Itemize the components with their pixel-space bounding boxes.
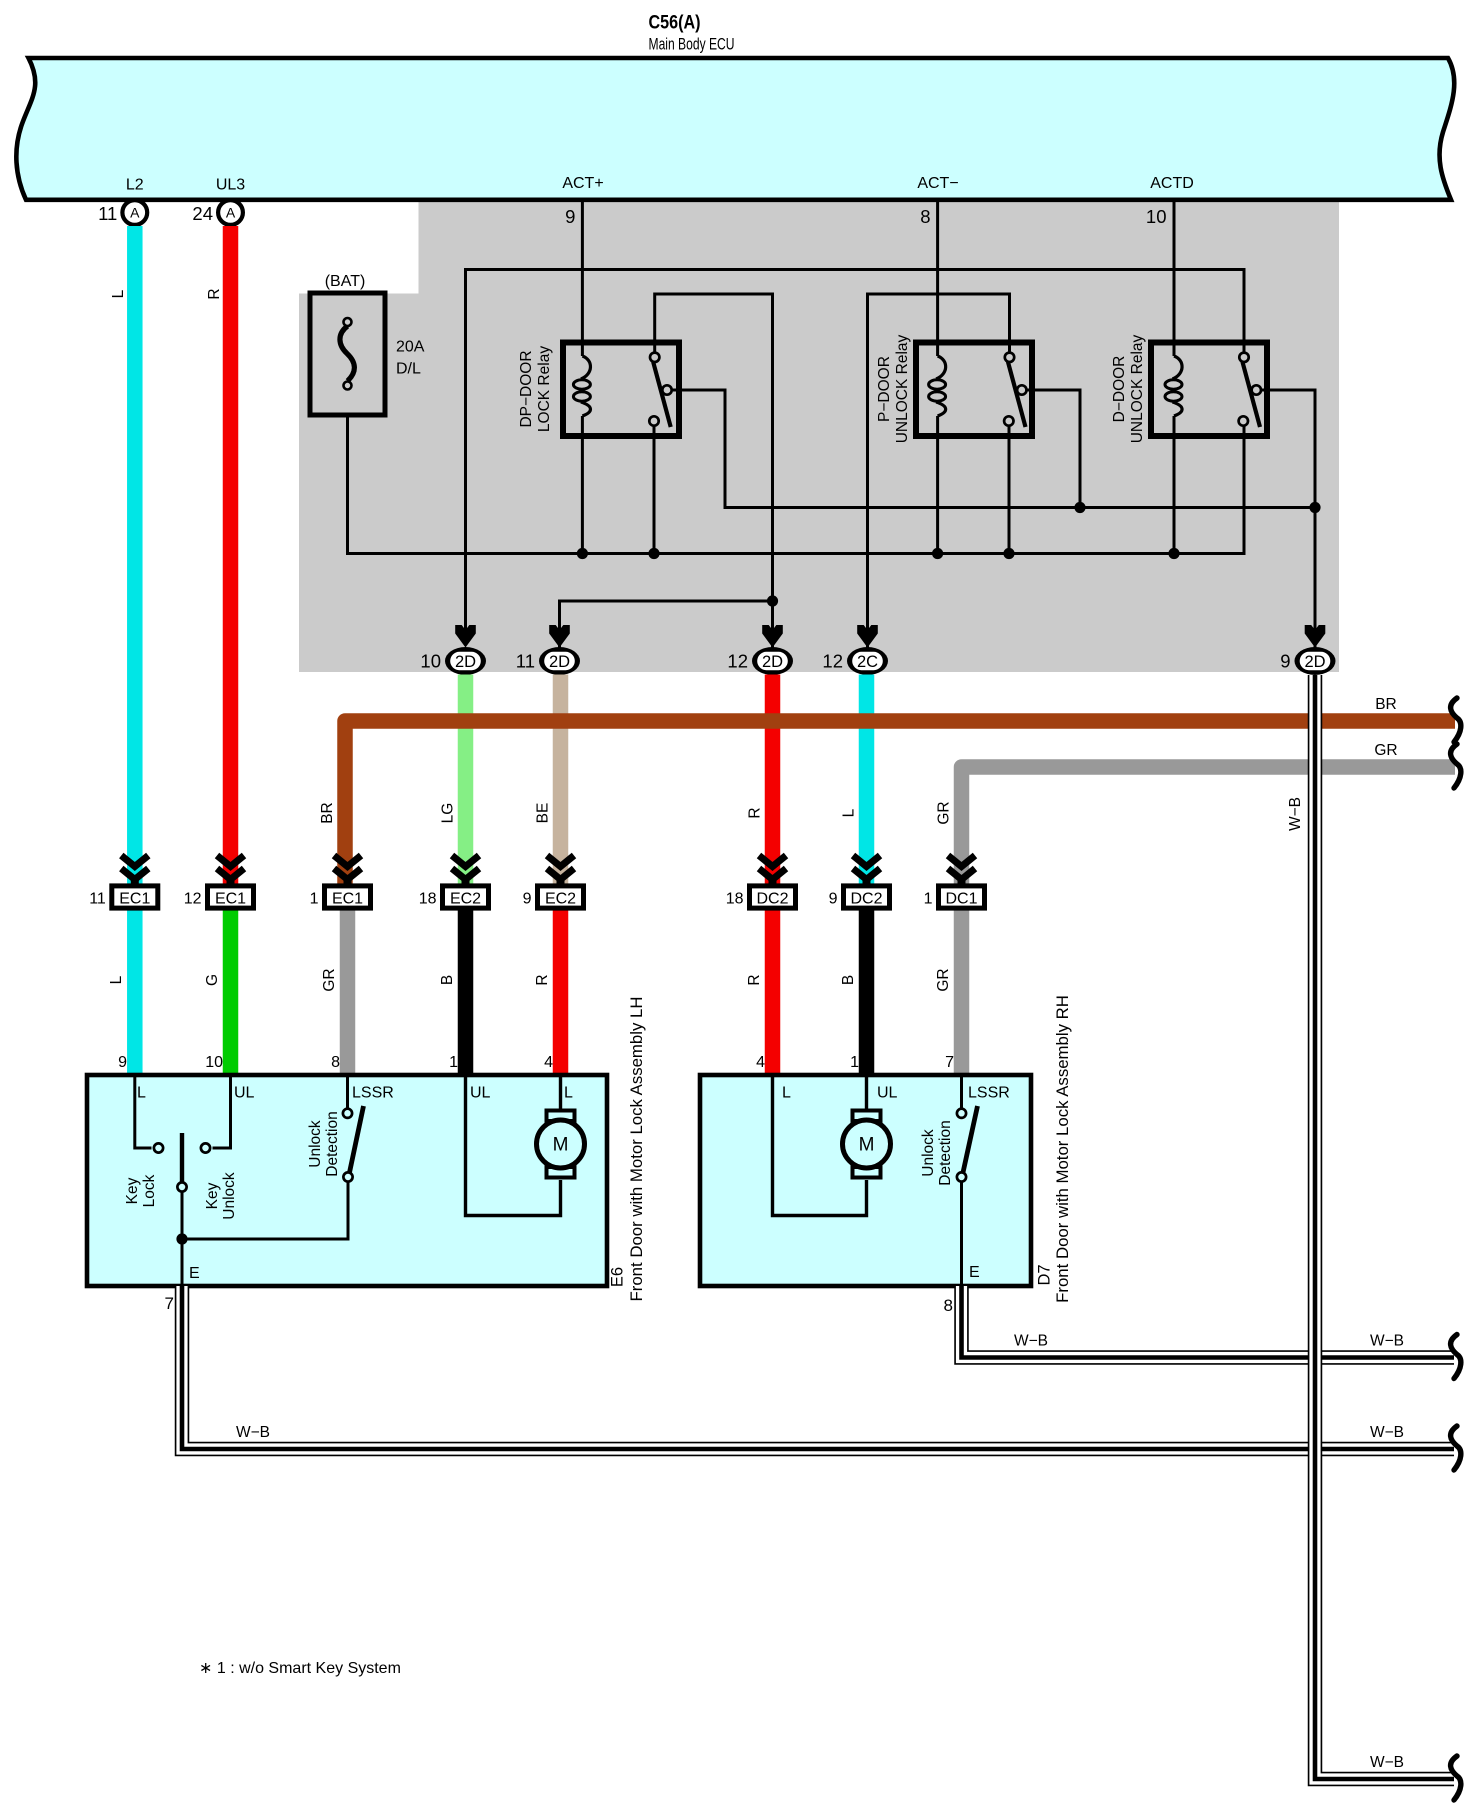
E6 terminal UL lead [213,1075,231,1148]
svg-text:BR: BR [1375,696,1397,713]
D7 motor L lead [773,1075,867,1216]
E6 unlock detection lower branch [182,1182,348,1239]
svg-text:12: 12 [184,890,202,907]
svg-text:ACT+: ACT+ [562,175,603,192]
svg-text:W−B: W−B [1370,1424,1404,1441]
wire P relay NO contact to connector 2C-12 [868,294,1010,648]
connector EC1 pin 1 arrows [334,856,361,867]
svg-text:11: 11 [516,651,535,672]
svg-text:BE: BE [535,803,552,824]
relay box P&#8722;DOOR UNLOCK Relay [916,343,1032,437]
ECU pin 11 terminal A [122,200,147,225]
wire L (cyan) from EC1-11 to door pin 9 [127,906,143,1077]
relay block background [299,202,1339,672]
svg-text:1: 1 [924,890,933,907]
svg-text:W−B: W−B [236,1424,270,1441]
svg-text:Front Door with Motor Lock Ass: Front Door with Motor Lock Assembly LH [627,997,646,1302]
wire B (black) from EC2-18 to door pin 1 [458,906,474,1077]
svg-text:Unlock: Unlock [221,1172,238,1220]
relay coil [581,356,591,379]
svg-text:2D: 2D [1304,653,1325,671]
connector EC1 pin 11 arrows [121,856,148,867]
D7 LSSR lead [960,1075,963,1109]
svg-text:2D: 2D [455,653,476,671]
svg-text:1: 1 [449,1054,458,1071]
connector box DC2-9 [844,886,890,908]
svg-text:R: R [534,974,551,985]
wire ACT+ coil lower lead [581,416,584,554]
wire R (red) from ECU UL3 to EC1-12 [223,226,239,888]
fuse 20A D/L box [310,293,385,415]
wire W-B ground from connector 2D-9 [1315,675,1454,1779]
svg-text:UL: UL [877,1085,898,1102]
svg-text:Detection: Detection [937,1120,954,1185]
wire R from 2D-12 to DC2-18 [765,675,781,889]
svg-text:W−B: W−B [1370,1754,1404,1771]
svg-text:1: 1 [850,1054,859,1071]
svg-text:4: 4 [544,1054,553,1071]
wire connector 2D-11 branch [560,601,773,648]
E6 LSSR lead [346,1075,349,1109]
connector box DC2-18 [750,886,796,908]
wire GR from EC1-1 to door pin 8 [340,906,356,1077]
wire L (cyan) from ECU L2 to EC1-11 [127,226,143,888]
svg-text:B: B [439,975,456,985]
relay box DP&#8722;DOOR LOCK Relay [563,343,679,437]
junction dot P coil on fuse bus [932,548,943,559]
Front Door with Motor Lock Assembly LH (E6) box [87,1075,607,1286]
relay coil [936,356,946,379]
wire DP relay NO contact to connector 2D-12 [655,294,773,648]
svg-text:R: R [206,288,223,299]
connector oval 2D-9 [1295,647,1336,675]
svg-text:W−B: W−B [1370,1333,1404,1350]
svg-text:Main Body ECU: Main Body ECU [649,35,735,54]
wire L from 2C-12 to DC2-9 [859,675,875,889]
svg-text:A: A [226,205,236,221]
svg-text:9: 9 [118,1054,127,1071]
svg-text:24: 24 [192,203,213,224]
svg-text:∗ 1 : w/o Smart Key System: ∗ 1 : w/o Smart Key System [199,1660,401,1677]
connector 2D-12 arrow [762,625,783,648]
svg-text:10: 10 [420,651,441,672]
connector EC2 pin 9 arrows [547,856,574,867]
Main Body ECU C56(A) block [16,58,1454,200]
connector box EC2-18 [443,886,489,908]
svg-text:ACTD: ACTD [1150,175,1194,192]
svg-text:(BAT): (BAT) [325,273,366,290]
E6 motor UL lead [466,1075,561,1216]
connector oval 2D-10 [445,647,486,675]
wire BE from 2D-11 to EC2-9 [553,675,569,889]
connector 2D-11 arrow [549,625,570,648]
break symbol W-B middle [1451,1426,1461,1470]
junction dot P common on bus [1074,502,1085,513]
wire ACT- coil lower lead [936,416,939,554]
E6 motor L lead [559,1075,562,1112]
svg-text:7: 7 [945,1054,954,1071]
E6 unlock detection switch arm [350,1106,364,1173]
connector box EC1-12 [208,886,254,908]
svg-text:DC2: DC2 [850,890,882,907]
D7 unlock detection switch arm [963,1106,978,1173]
svg-text:LG: LG [440,803,457,824]
svg-text:9: 9 [829,890,838,907]
svg-text:2C: 2C [857,653,878,671]
wire P relay NC contact to bus [1008,426,1011,554]
wire DP relay NC contact to bus [653,426,656,554]
svg-text:DC2: DC2 [756,890,788,907]
svg-text:L: L [137,1085,146,1102]
svg-text:Unlock: Unlock [920,1129,937,1177]
svg-text:Front Door with Motor Lock Ass: Front Door with Motor Lock Assembly RH [1053,995,1072,1303]
wire D relay common to connector 2D-9 [1260,390,1315,648]
ECU pin 24 terminal A [218,200,243,225]
relay box D&#8722;DOOR UNLOCK Relay [1151,343,1267,437]
wire W-B ground from D7 pin 8 [962,1286,1455,1358]
svg-text:EC2: EC2 [545,890,576,907]
wire DP relay common to actuator bus [670,390,1315,508]
svg-text:8: 8 [331,1054,340,1071]
svg-text:C56(A): C56(A) [649,13,701,34]
svg-text:G: G [204,974,221,986]
wire ACT+ to DP coil and bus [581,200,584,356]
svg-text:9: 9 [1280,651,1290,672]
svg-text:11: 11 [98,203,117,224]
svg-text:UNLOCK Relay: UNLOCK Relay [894,334,911,443]
svg-text:12: 12 [822,651,843,672]
svg-text:L: L [108,975,125,984]
svg-text:GR: GR [935,968,952,991]
wire W-B ground from E6 pin 7 [182,1286,1454,1449]
wire G (green) from EC1-12 to door pin 10 [223,906,239,1077]
connector EC1 pin 12 arrows [217,856,244,867]
junction dot DP coil on fuse bus [577,548,588,559]
svg-text:2D: 2D [549,653,570,671]
svg-text:L: L [564,1085,573,1102]
svg-text:EC1: EC1 [215,890,246,907]
break symbol W-B upper [1451,1335,1461,1379]
D7 motor UL lead [865,1075,868,1112]
wire B (black) from DC2-9 to door pin 1 [859,906,875,1077]
svg-text:12: 12 [727,651,748,672]
E6 key switch arm [180,1133,184,1182]
wire fuse output bus [348,415,1245,554]
wire P relay common [1025,390,1080,508]
break symbol W-B bottom [1451,1756,1461,1800]
svg-text:R: R [746,974,763,985]
D7 motor M [853,1111,881,1122]
svg-text:LOCK Relay: LOCK Relay [536,346,553,432]
svg-text:8: 8 [944,1296,953,1315]
svg-text:LSSR: LSSR [352,1085,394,1102]
fuse element [340,326,354,381]
svg-text:GR: GR [321,968,338,991]
svg-text:ACT−: ACT− [917,175,958,192]
connector DC2 pin 9 arrows [853,856,880,867]
svg-text:Detection: Detection [324,1111,341,1176]
svg-text:10: 10 [1146,206,1167,227]
junction dot D common on bus [1309,502,1320,513]
svg-text:E: E [969,1264,980,1281]
svg-text:EC1: EC1 [119,890,150,907]
svg-text:P−DOOR: P−DOOR [876,356,893,422]
junction dot P NC on fuse bus [1003,548,1014,559]
wire BR (brown) from relay block to right break [345,721,1455,888]
svg-text:L2: L2 [126,177,144,194]
svg-text:UNLOCK Relay: UNLOCK Relay [1129,334,1146,443]
svg-text:A: A [130,205,140,221]
E6 ground junction dot [176,1233,187,1244]
svg-text:10: 10 [205,1054,223,1071]
svg-text:L: L [841,808,858,817]
svg-text:M: M [859,1135,875,1156]
svg-text:R: R [747,807,764,818]
svg-text:E6: E6 [609,1267,627,1287]
wire LG from 2D-10 to EC2-18 [458,675,474,889]
connector oval 2D-11 [539,647,580,675]
svg-text:Unlock: Unlock [307,1120,324,1168]
connector 2C-12 arrow [857,625,878,648]
svg-text:W−B: W−B [1287,797,1304,831]
junction dot DP NC on fuse bus [648,548,659,559]
E6 terminal L lead [135,1075,152,1148]
svg-text:GR: GR [1374,742,1397,759]
svg-text:2D: 2D [762,653,783,671]
wire ACT- to P coil [936,200,939,356]
svg-text:D/L: D/L [396,361,421,378]
relay switch [653,362,671,427]
svg-text:W−B: W−B [1014,1333,1048,1350]
svg-text:9: 9 [565,206,575,227]
connector 2D-9 arrow [1305,625,1326,648]
connector box DC1-1 [939,886,985,908]
wire GR from DC1-1 to door pin 7 [954,906,970,1077]
svg-text:Key: Key [204,1182,221,1209]
svg-text:20A: 20A [396,339,425,356]
connector EC2 pin 18 arrows [452,856,479,867]
svg-text:GR: GR [936,801,953,824]
relay switch [1008,362,1026,427]
break symbol GR [1451,744,1461,788]
connector oval 2C-12 [847,647,888,675]
wire GR (gray) from right break to DC1 [962,767,1456,888]
connector box EC2-9 [538,886,584,908]
svg-text:DC1: DC1 [945,890,977,907]
connector DC1 pin 1 arrows [948,856,975,867]
relay switch [1243,362,1261,427]
svg-text:B: B [840,975,857,985]
connector oval 2D-12 [752,647,793,675]
svg-text:18: 18 [419,890,437,907]
svg-text:DP−DOOR: DP−DOOR [518,350,535,427]
svg-text:EC1: EC1 [332,890,363,907]
svg-text:4: 4 [756,1054,765,1071]
svg-text:M: M [553,1135,569,1156]
Front Door with Motor Lock Assembly RH (D7) box [700,1075,1031,1286]
svg-text:11: 11 [89,890,106,907]
wire R (red) from DC2-18 to door pin 4 [765,906,781,1077]
svg-text:D−DOOR: D−DOOR [1111,356,1128,423]
svg-text:18: 18 [726,890,744,907]
connector DC2 pin 18 arrows [759,856,786,867]
svg-text:UL: UL [234,1085,255,1102]
svg-text:UL: UL [470,1085,491,1102]
connector box EC1-11 [112,886,158,908]
svg-text:EC2: EC2 [450,890,481,907]
svg-text:7: 7 [165,1294,174,1313]
svg-text:L: L [110,289,127,298]
wire ACTD coil lower lead [1173,416,1176,554]
relay coil [1173,356,1183,379]
svg-text:Lock: Lock [141,1174,158,1207]
wire ACTD to D coil [1173,200,1176,356]
break symbol BR [1451,698,1461,742]
svg-text:Key: Key [124,1177,141,1204]
svg-text:UL3: UL3 [216,177,245,194]
svg-text:8: 8 [920,206,930,227]
connector box EC1-1 [325,886,371,908]
wire R (red) from EC2-9 to door pin 4 [553,906,569,1077]
svg-text:D7: D7 [1036,1264,1054,1285]
svg-text:L: L [782,1085,791,1102]
E6 motor M [547,1111,575,1122]
junction dot 2D-12 branch [767,595,778,606]
svg-text:LSSR: LSSR [968,1085,1010,1102]
svg-text:9: 9 [523,890,532,907]
D7 ground lead [960,1182,963,1286]
svg-text:BR: BR [319,802,336,824]
connector 2D-10 arrow [455,625,476,648]
wire unlock feed to connector 2D-10 and D relay contact [466,270,1245,631]
junction dot D coil on fuse bus [1168,548,1179,559]
svg-text:E: E [189,1265,200,1282]
svg-text:1: 1 [310,890,319,907]
